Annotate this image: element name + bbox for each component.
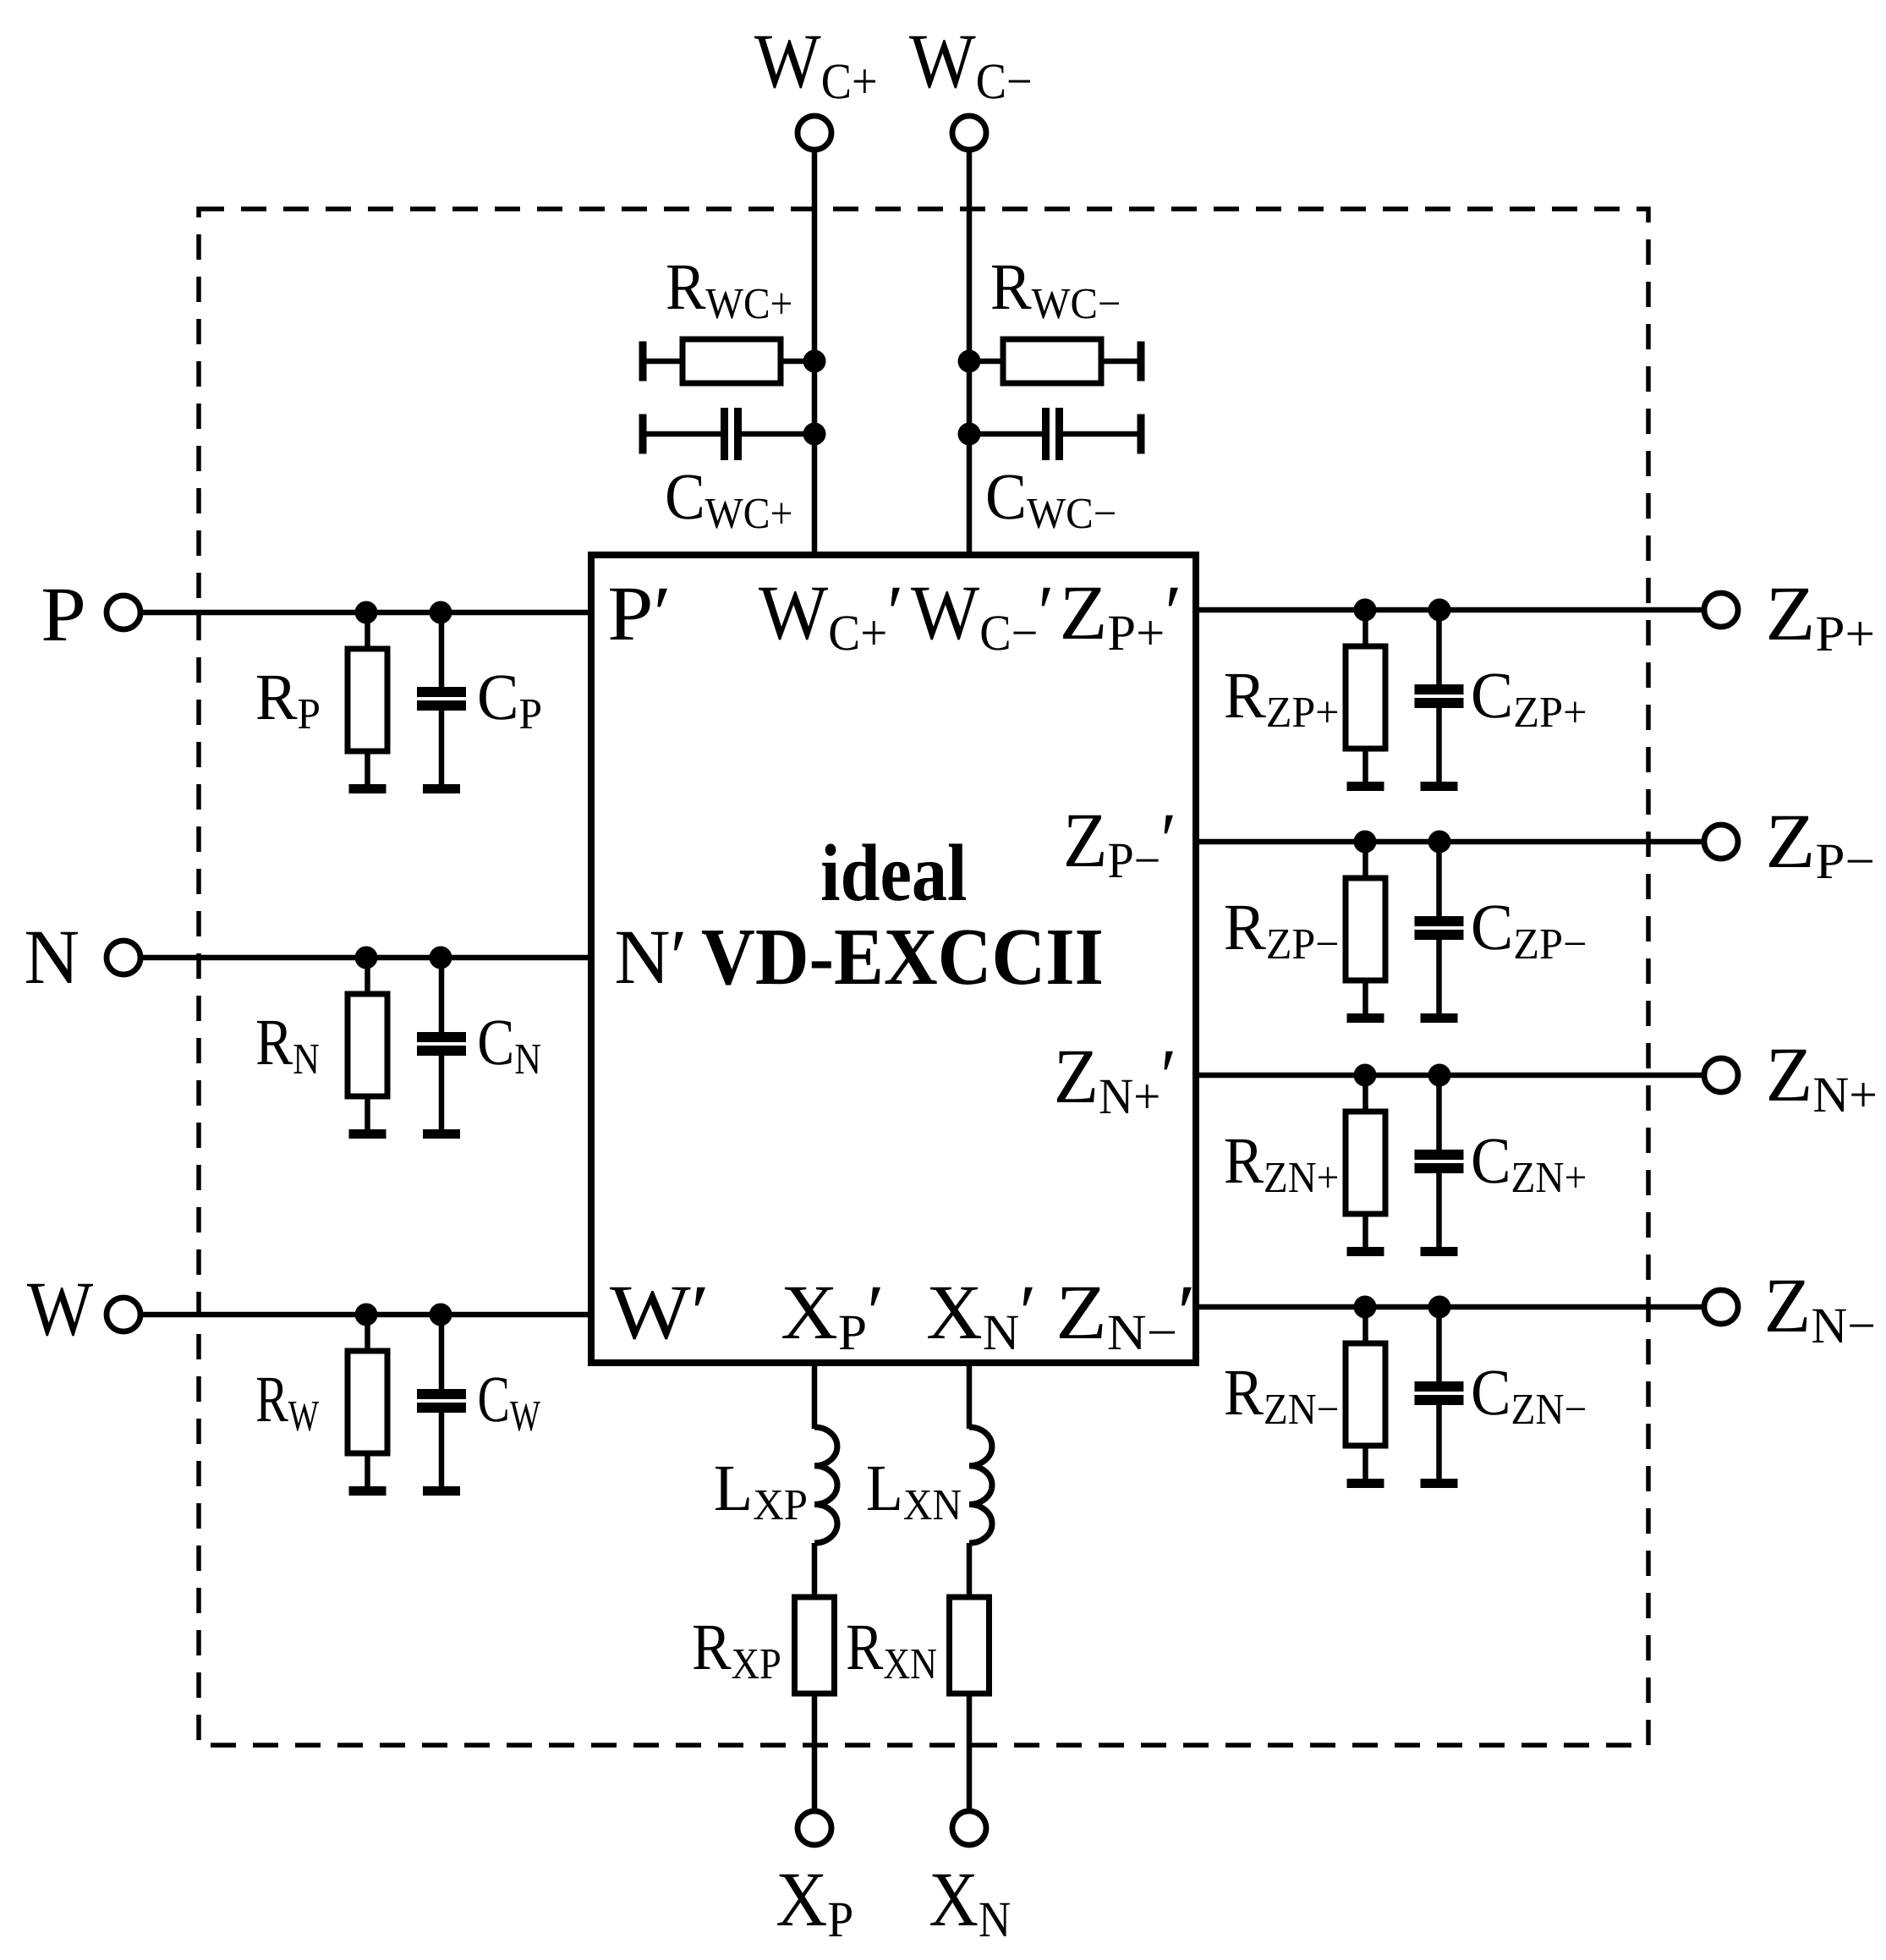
wire W_C+ vertical <box>812 150 818 555</box>
inductor L_XP <box>814 1427 837 1543</box>
pin P' <box>610 589 650 640</box>
label X_P <box>777 1875 826 1925</box>
label N <box>26 932 78 983</box>
junction ZN+ R <box>1354 1064 1377 1087</box>
capacitor C_ZN+ <box>1415 1075 1464 1256</box>
pin W_C+' <box>759 588 828 640</box>
wire W_C- vertical <box>967 150 973 555</box>
junction P C <box>430 601 452 624</box>
resistor R_W <box>348 1315 387 1496</box>
label W <box>27 1284 93 1337</box>
pin W_C-' <box>911 588 979 640</box>
label C_ZP+ <box>1473 673 1510 717</box>
capacitor C_WC- <box>969 408 1145 460</box>
wire Z_P- <box>1196 839 1704 845</box>
label C_W <box>480 1377 507 1421</box>
capacitor C_W <box>417 1315 466 1496</box>
capacitor C_WC+ <box>639 408 815 460</box>
junction N C <box>430 947 452 969</box>
terminal Z_P- <box>1704 825 1738 859</box>
junction W_C+ C <box>803 423 826 446</box>
junction W_C+ R <box>803 350 826 373</box>
capacitor C_ZN- <box>1415 1307 1464 1488</box>
label P <box>43 590 83 640</box>
resistor R_P <box>348 612 387 793</box>
label R_N <box>257 1021 293 1064</box>
junction ZP- R <box>1354 831 1377 854</box>
resistor R_ZN+ <box>1346 1075 1385 1256</box>
label R_P <box>257 676 297 719</box>
wire X_P terminal lead <box>812 1692 818 1812</box>
junction ZP+ R <box>1354 599 1377 622</box>
label C_WC- <box>988 475 1023 519</box>
label ideal <box>822 843 839 900</box>
terminal Z_N+ <box>1704 1058 1738 1092</box>
junction ZN- R <box>1354 1296 1377 1319</box>
junction W_C- C <box>958 423 981 446</box>
resistor R_N <box>348 958 387 1139</box>
label R_WC+ <box>667 266 705 309</box>
junction ZN+ C <box>1428 1064 1451 1087</box>
junction ZP+ C <box>1428 599 1451 622</box>
label R_W <box>257 1378 288 1421</box>
label Z_N- <box>1768 1281 1807 1331</box>
pin Z_P+' <box>1063 588 1103 639</box>
ideal VD-EXCCII block <box>591 555 1196 1363</box>
label Z_N+ <box>1769 1050 1808 1101</box>
terminal Z_N- <box>1704 1290 1738 1324</box>
terminal N <box>107 941 140 975</box>
terminal W_C- <box>952 116 986 150</box>
wire X_N upper lead <box>967 1363 973 1429</box>
terminal X_N <box>952 1811 986 1845</box>
resistor R_ZP+ <box>1346 610 1385 791</box>
label X_N <box>930 1875 977 1925</box>
junction W C <box>430 1304 452 1326</box>
resistor R_XN <box>950 1597 990 1694</box>
junction ZN- C <box>1428 1296 1451 1319</box>
label C_ZN+ <box>1473 1139 1508 1183</box>
wire P <box>140 610 591 616</box>
label VD-EXCCII <box>702 931 754 985</box>
inductor L_XN <box>969 1427 992 1543</box>
terminal X_P <box>798 1811 831 1845</box>
capacitor C_P <box>417 612 466 793</box>
wire Z_P+ <box>1196 607 1704 613</box>
label C_ZN- <box>1473 1370 1508 1414</box>
label L_XN <box>868 1467 900 1510</box>
pin Z_N-' <box>1060 1287 1102 1338</box>
capacitor C_ZP- <box>1415 842 1464 1023</box>
junction W_C- R <box>958 350 981 373</box>
terminal Z_P+ <box>1704 593 1738 627</box>
label R_ZN- <box>1225 1371 1264 1414</box>
terminal W <box>107 1298 140 1331</box>
resistor R_WC- <box>969 339 1145 383</box>
terminal W_C+ <box>798 116 831 150</box>
label W_C+ <box>754 36 821 89</box>
resistor R_WC+ <box>639 339 815 383</box>
label Z_P+ <box>1769 589 1811 640</box>
label R_XN <box>847 1626 883 1669</box>
label C_P <box>480 675 515 719</box>
resistor R_XP <box>795 1597 835 1694</box>
label R_XP <box>694 1626 731 1669</box>
wire X_P lower lead <box>812 1543 818 1599</box>
dashed model boundary <box>199 209 1648 1745</box>
label R_ZN+ <box>1225 1139 1264 1183</box>
wire X_N lower lead <box>967 1543 973 1599</box>
capacitor C_N <box>417 958 466 1139</box>
wire W <box>141 1312 591 1318</box>
junction P R <box>355 601 378 624</box>
label R_ZP- <box>1225 906 1266 949</box>
label C_N <box>480 1020 512 1064</box>
junction ZP- C <box>1428 831 1451 854</box>
label Z_P- <box>1769 816 1811 867</box>
wire Z_N+ <box>1196 1073 1704 1079</box>
pin N' <box>617 932 668 983</box>
label R_WC- <box>992 266 1031 309</box>
pin Z_N+' <box>1057 1051 1094 1102</box>
wire X_P upper lead <box>812 1363 818 1429</box>
pin Z_P-' <box>1066 815 1104 866</box>
capacitor C_ZP+ <box>1415 610 1464 791</box>
resistor R_ZN- <box>1346 1307 1385 1488</box>
wire N <box>141 955 591 961</box>
wire Z_N- <box>1196 1304 1704 1310</box>
label C_ZP- <box>1473 905 1510 949</box>
junction W R <box>355 1304 378 1326</box>
resistor R_ZP- <box>1346 842 1385 1023</box>
label W_C- <box>909 36 976 89</box>
pin X_N' <box>928 1287 981 1338</box>
label L_XP <box>715 1467 749 1510</box>
pin X_P' <box>782 1287 836 1338</box>
label R_ZP+ <box>1225 674 1266 717</box>
pin W' <box>610 1287 691 1340</box>
terminal P <box>107 596 140 629</box>
junction N R <box>355 947 378 969</box>
wire X_N terminal lead <box>967 1692 973 1812</box>
label C_WC+ <box>667 475 702 519</box>
